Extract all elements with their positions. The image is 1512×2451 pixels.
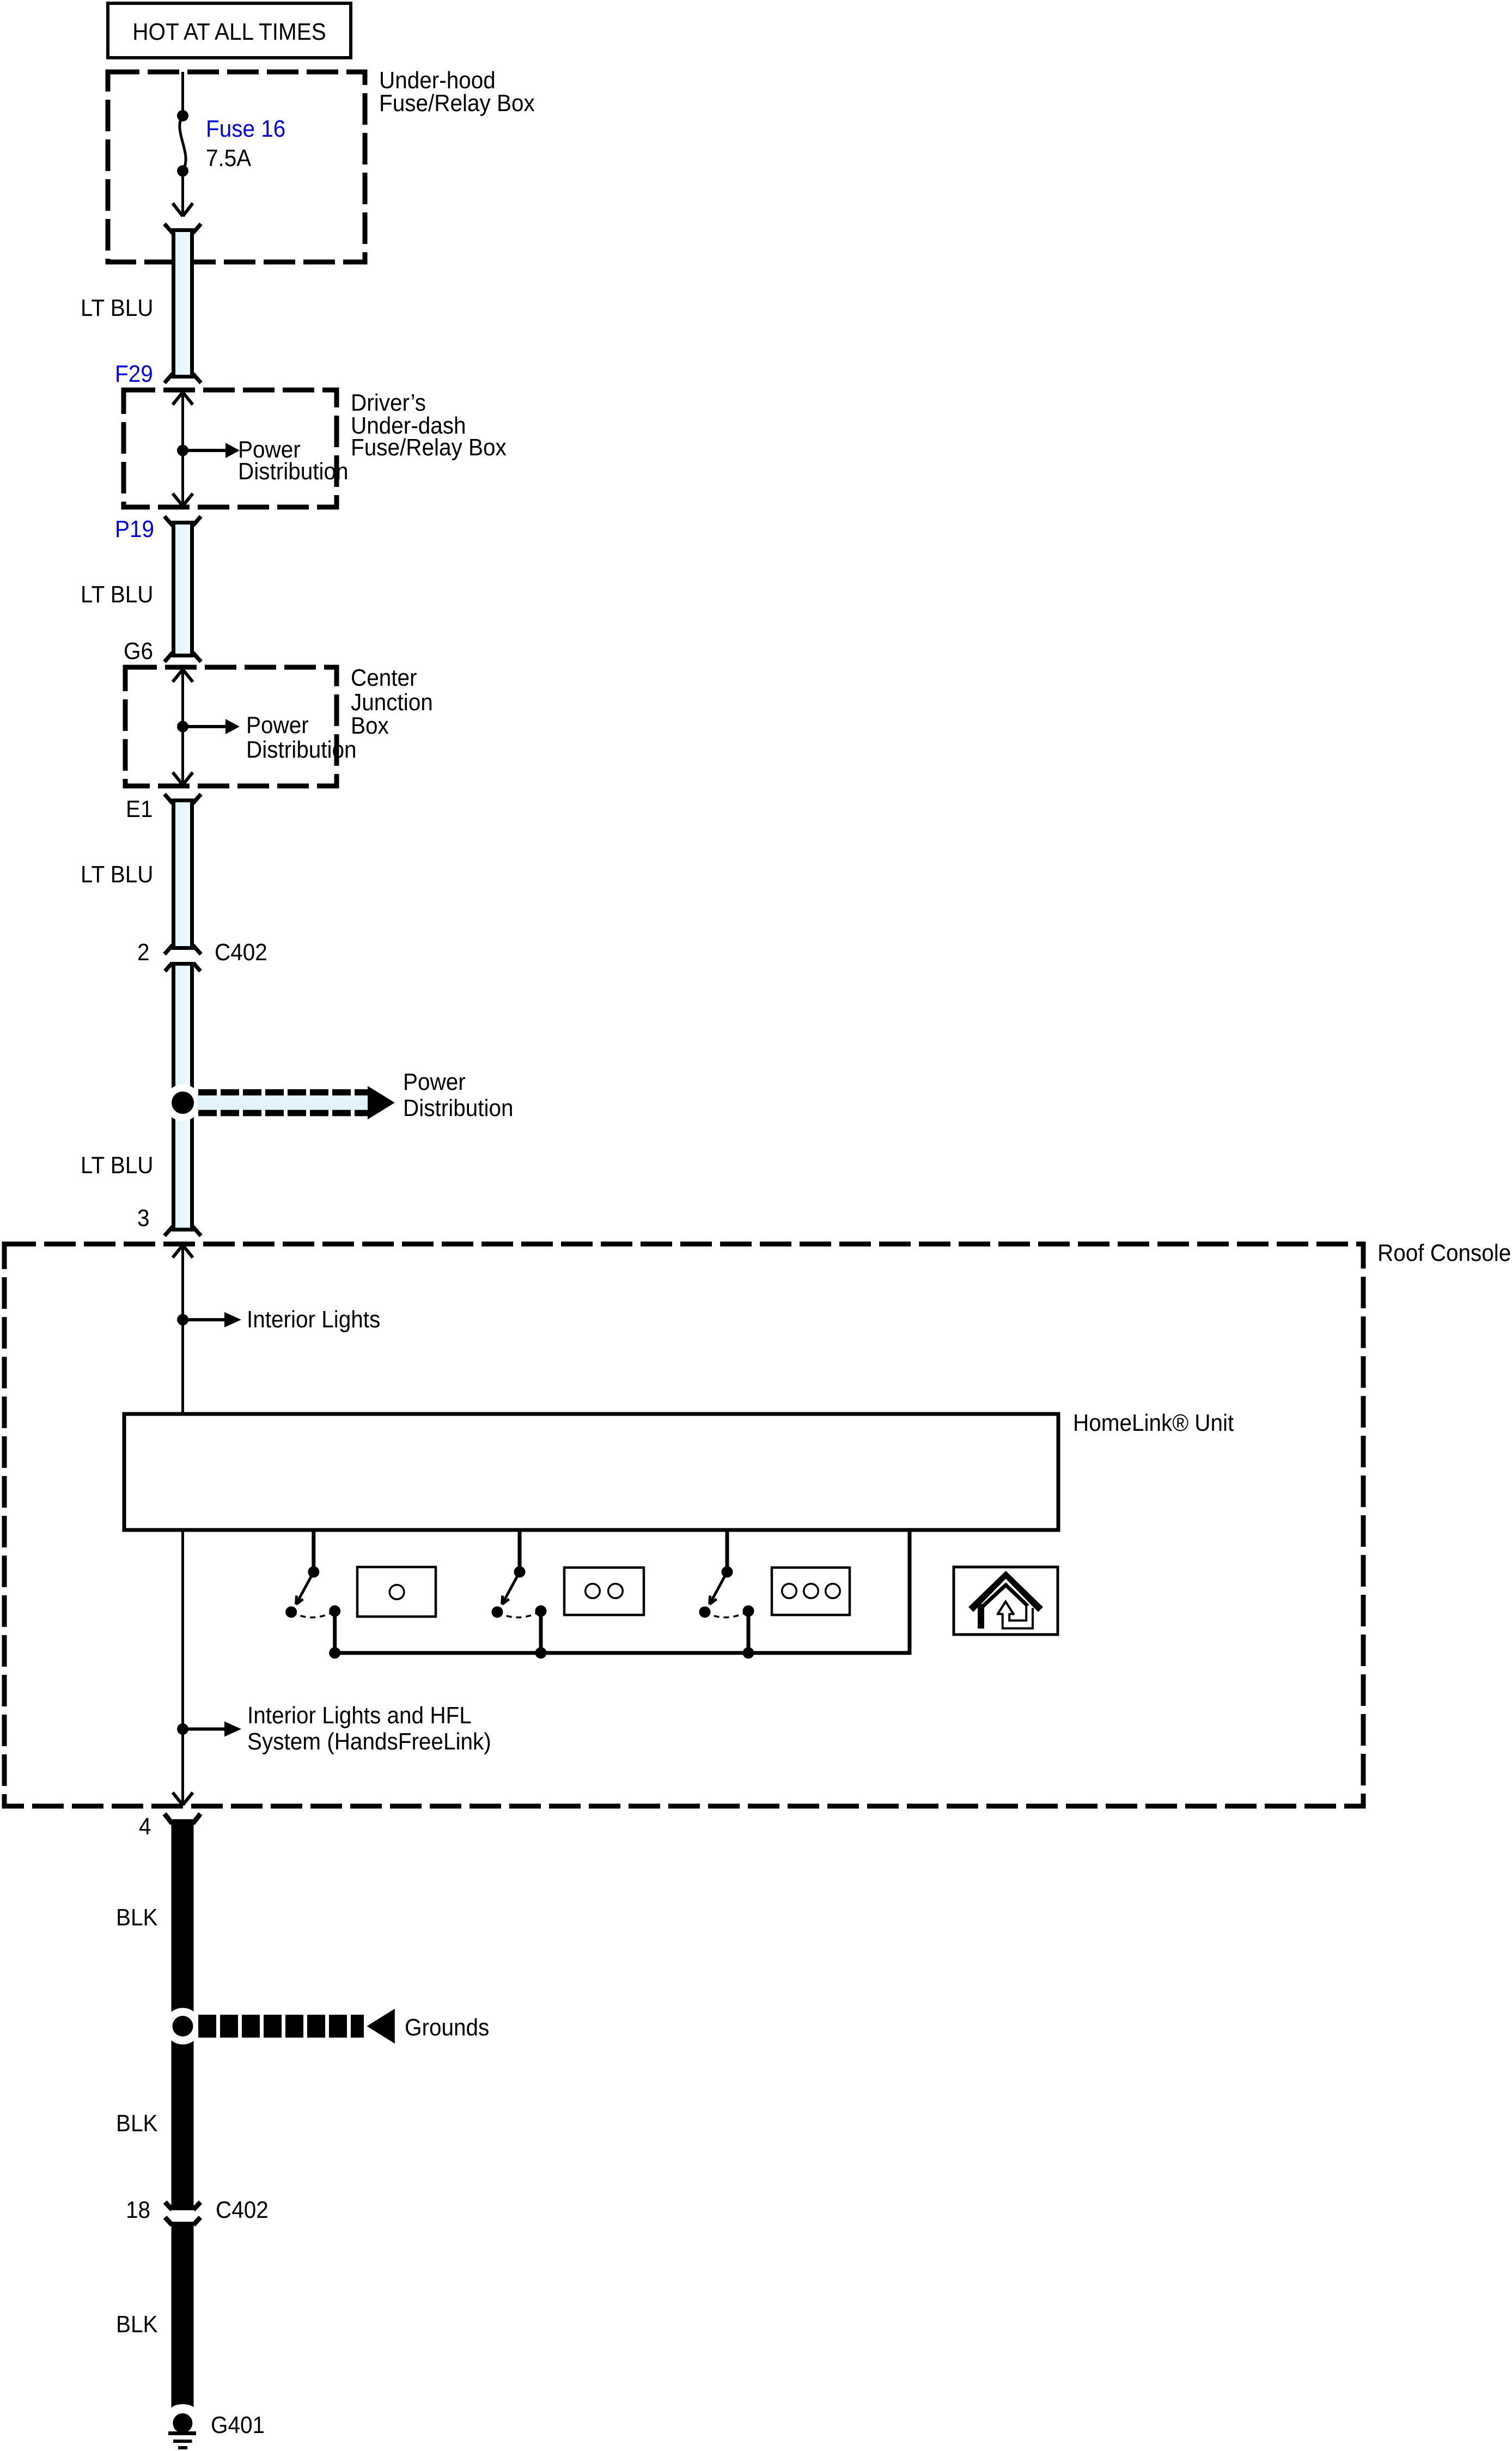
label Power Distribution (center box) bbox=[246, 712, 357, 763]
wire exit console down arrow bbox=[173, 1792, 193, 1805]
svg-text:Interior Lights and HFL: Interior Lights and HFL bbox=[247, 1702, 472, 1729]
svg-text:LT BLU: LT BLU bbox=[81, 295, 154, 321]
svg-text:Power: Power bbox=[403, 1069, 466, 1095]
node junction to Power Distribution bbox=[177, 721, 188, 733]
house logo arrow loop bbox=[1003, 1608, 1033, 1629]
connector bar E1-2 (LT BLU wire) bbox=[164, 794, 201, 954]
wire into console with up arrow bbox=[173, 1245, 193, 1414]
house logo outer roof bbox=[968, 1571, 1043, 1612]
svg-text:F29: F29 bbox=[115, 361, 153, 387]
connector bar below C402 (LT BLU wire, node 3) bbox=[164, 963, 201, 1236]
svg-text:Distribution: Distribution bbox=[403, 1095, 514, 1121]
house logo inner roof bbox=[983, 1585, 1028, 1607]
svg-text:BLK: BLK bbox=[116, 1904, 158, 1931]
node junction Power Distribution tap bbox=[164, 1084, 201, 1121]
label Interior Lights and HFL System (HandsFreeLink) bbox=[247, 1702, 491, 1755]
node junction to Power Distribution bbox=[177, 445, 188, 456]
wire switch common bus bbox=[335, 1530, 910, 1653]
switch S2 stub bbox=[518, 1530, 522, 1572]
svg-text:Power: Power bbox=[246, 712, 309, 739]
svg-text:C402: C402 bbox=[216, 2197, 269, 2223]
HomeLink unit box bbox=[124, 1414, 1058, 1530]
wire dashed arrow Grounds bbox=[198, 2009, 395, 2044]
button box two circles bbox=[564, 1568, 644, 1615]
svg-text:System (HandsFreeLink): System (HandsFreeLink) bbox=[247, 1728, 491, 1755]
svg-text:4: 4 bbox=[139, 1813, 151, 1840]
svg-text:Grounds: Grounds bbox=[405, 2014, 489, 2041]
switch S2 (momentary) bbox=[492, 1566, 547, 1659]
wire fuse to connector with down arrow bbox=[173, 171, 193, 216]
ground G401 bbox=[168, 2413, 196, 2449]
svg-text:G401: G401 bbox=[211, 2412, 265, 2438]
fuse Fuse 16 7.5A (squiggle with end dots) bbox=[177, 110, 188, 176]
svg-text:E1: E1 bbox=[126, 796, 153, 822]
svg-text:Fuse/Relay Box: Fuse/Relay Box bbox=[351, 434, 507, 461]
svg-text:Distribution: Distribution bbox=[238, 458, 349, 485]
node junction Grounds tap bbox=[164, 2008, 201, 2045]
svg-text:HOT AT ALL TIMES: HOT AT ALL TIMES bbox=[132, 19, 326, 45]
svg-text:Center: Center bbox=[351, 664, 417, 691]
button box one circle bbox=[357, 1567, 436, 1617]
svg-text:Distribution: Distribution bbox=[246, 736, 357, 763]
svg-text:Interior Lights: Interior Lights bbox=[247, 1306, 380, 1333]
switch S3 (momentary) bbox=[699, 1566, 754, 1659]
svg-text:18: 18 bbox=[126, 2197, 150, 2223]
connector bar F29 (LT BLU wire) bbox=[164, 224, 201, 383]
label Power Distribution (driver box) bbox=[238, 436, 349, 485]
label Driver's Under-dash Fuse/Relay Box bbox=[351, 389, 507, 461]
svg-text:G6: G6 bbox=[124, 638, 153, 664]
switch S3 stub bbox=[725, 1530, 729, 1572]
ground wire BLK upper segment bbox=[164, 1814, 200, 2210]
svg-text:LT BLU: LT BLU bbox=[81, 581, 154, 608]
wire through box with arrows bbox=[173, 392, 193, 506]
svg-text:Fuse 16: Fuse 16 bbox=[206, 115, 285, 142]
node junction Interior Lights bbox=[177, 1314, 188, 1326]
ground wire BLK lower segment bbox=[165, 2217, 200, 2415]
under-hood fuse/relay box (dashed) bbox=[108, 72, 365, 262]
label Center Junction Box bbox=[351, 664, 433, 739]
label Power Distribution (tap arrow) bbox=[403, 1069, 514, 1121]
wire branch Interior Lights and HFL System bbox=[183, 1722, 242, 1737]
house logo left wall bbox=[978, 1604, 984, 1629]
button box three circles bbox=[772, 1568, 850, 1615]
roof console box (dashed) bbox=[4, 1244, 1363, 1806]
wire branch Power Distribution bbox=[183, 443, 240, 458]
wire from HomeLink unit down bbox=[181, 1530, 184, 1804]
svg-text:BLK: BLK bbox=[116, 2311, 158, 2338]
switch S1 stub bbox=[312, 1530, 315, 1572]
svg-text:3: 3 bbox=[137, 1205, 150, 1231]
svg-text:P19: P19 bbox=[115, 516, 154, 542]
svg-text:LT BLU: LT BLU bbox=[81, 1152, 154, 1179]
svg-text:2: 2 bbox=[137, 939, 150, 966]
svg-text:Fuse/Relay Box: Fuse/Relay Box bbox=[379, 90, 535, 117]
node junction Interior Lights and HFL bbox=[177, 1723, 188, 1735]
house logo arrow head bbox=[997, 1602, 1015, 1615]
wire from HOT box into fuse bbox=[181, 72, 184, 111]
svg-text:BLK: BLK bbox=[116, 2110, 158, 2137]
wire dashed arrow Power Distribution (LT BLU) bbox=[197, 1086, 395, 1120]
connector bar P19-G6 (LT BLU wire) bbox=[164, 516, 201, 662]
svg-text:Roof Console: Roof Console bbox=[1377, 1240, 1511, 1266]
power source box HOT AT ALL TIMES bbox=[108, 3, 351, 58]
svg-text:C402: C402 bbox=[215, 939, 267, 966]
wire branch Power Distribution bbox=[183, 719, 240, 734]
switch S1 (momentary) bbox=[285, 1566, 340, 1659]
svg-text:LT BLU: LT BLU bbox=[81, 861, 154, 888]
svg-text:Box: Box bbox=[351, 712, 389, 739]
HomeLink house logo box bbox=[954, 1567, 1058, 1635]
wire branch Interior Lights bbox=[183, 1312, 242, 1327]
svg-text:HomeLink® Unit: HomeLink® Unit bbox=[1073, 1410, 1234, 1436]
wire through box with arrows bbox=[173, 669, 193, 785]
label Under-hood Fuse/Relay Box bbox=[379, 67, 535, 117]
svg-text:7.5A: 7.5A bbox=[206, 145, 252, 172]
svg-text:Junction: Junction bbox=[351, 689, 433, 716]
center junction box (dashed) bbox=[125, 667, 337, 786]
driver's under-dash fuse/relay box (dashed) bbox=[124, 390, 337, 507]
